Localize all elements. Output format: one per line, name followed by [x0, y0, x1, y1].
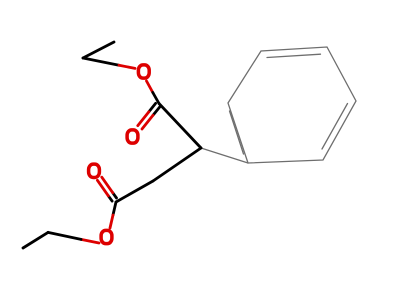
- bond O4-CH2b black part: [48, 232, 81, 239]
- atom O3 carbonyl bottom: [89, 164, 100, 177]
- bond C2-O4 black part: [113, 202, 116, 215]
- bond O1-C1 red part: [147, 81, 153, 93]
- bond CH2a-O1 black part: [83, 58, 119, 65]
- double bond C2=O3 line 2 black part: [113, 193, 117, 198]
- atom O1 ether top: [138, 65, 149, 78]
- bond V2-C2: [116, 181, 153, 202]
- double bond C1=O2 line 2 black part: [149, 103, 156, 112]
- double bond C1=O2 line 1 black part: [153, 107, 160, 116]
- double bond C2=O3 line 1 red part: [97, 180, 108, 196]
- atom O4 ether bottom: [101, 230, 112, 243]
- bond C1-V1: [159, 104, 201, 149]
- double bond C2=O3 line 2 red part: [102, 177, 113, 193]
- double bond C1=O2 line 2 red part: [138, 112, 149, 126]
- atom O2 carbonyl top: [127, 130, 138, 143]
- bond CH3a-CH2a: [83, 42, 114, 58]
- double bond C1=O2 line 1 red part: [142, 115, 153, 129]
- bond O4-CH2b red part: [81, 239, 99, 243]
- bond CH2a-O1 red part: [119, 65, 135, 68]
- double bond C2=O3 line 1 black part: [108, 196, 112, 201]
- bond V1-V2: [153, 148, 201, 181]
- bond C2-O4 red part: [110, 215, 113, 228]
- bond O1-C1 black part: [153, 93, 159, 104]
- benzene ring (light gray layer): [201, 47, 356, 163]
- bond CH2b-CH3b: [23, 232, 48, 248]
